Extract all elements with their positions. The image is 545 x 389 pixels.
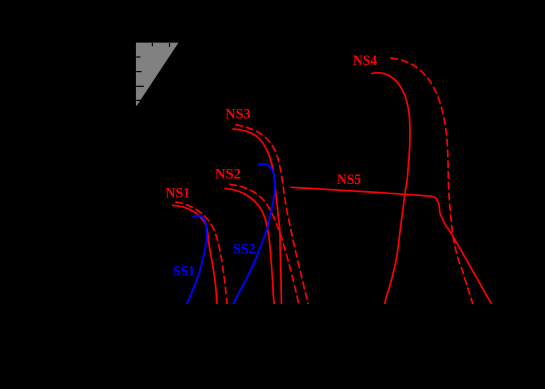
x-axis tick at x=152.4 xyxy=(151,43,153,46)
svg-text:SS2: SS2 xyxy=(233,242,256,258)
svg-text:NS4: NS4 xyxy=(353,53,377,69)
curve NS1 dashed xyxy=(176,202,227,304)
y-axis major tick at y=86.3 xyxy=(136,85,144,87)
svg-text:NS3: NS3 xyxy=(225,107,250,123)
y-axis tick at y=71.6 xyxy=(136,71,141,73)
curve NS3 dashed xyxy=(236,125,308,304)
curve NS2 solid xyxy=(225,188,274,303)
y-axis tick at y=100.4 xyxy=(136,99,141,101)
curve NS2 dashed xyxy=(230,184,298,303)
curve NS4 dashed xyxy=(391,58,473,304)
shaded causality-excluded triangle region xyxy=(136,43,179,106)
svg-text:SS1: SS1 xyxy=(173,263,195,279)
svg-text:NS1: NS1 xyxy=(166,186,191,202)
curve SS1 solid blue xyxy=(187,216,207,304)
curve NS1 solid xyxy=(173,205,218,303)
curve NS4 solid xyxy=(372,73,410,304)
svg-text:NS2: NS2 xyxy=(215,167,241,183)
curve SS2 solid blue xyxy=(234,164,276,304)
x-axis tick at x=169.5 xyxy=(169,43,171,47)
curve NS3 solid xyxy=(233,129,281,304)
svg-text:NS5: NS5 xyxy=(337,172,361,188)
curve NS5 solid xyxy=(291,187,491,303)
y-axis tick at y=57 xyxy=(136,56,140,58)
